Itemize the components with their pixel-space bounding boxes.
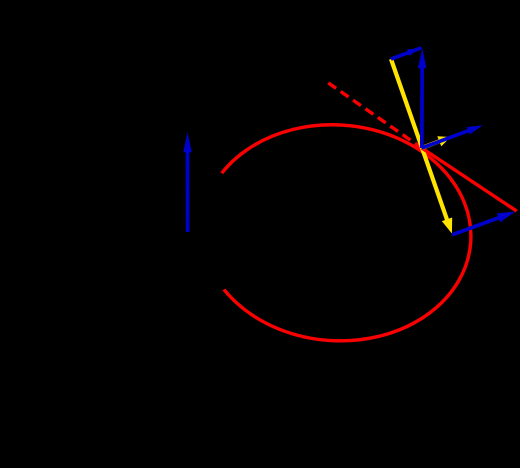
- blue bottom arrow: [452, 212, 515, 235]
- blue radial arrow at P: [422, 125, 483, 148]
- solid tangent line from P: [422, 148, 517, 211]
- yellow transverse velocity arrow: [391, 59, 452, 234]
- blue short top arrow: [391, 48, 421, 59]
- central body (black disk at focus, occludes orbit): [120, 164, 256, 300]
- yellow short radial arrow: [422, 136, 451, 148]
- orbit ellipse: [194, 116, 478, 350]
- dashed tangent line: [328, 83, 422, 148]
- blue arrow at focus: [183, 132, 192, 232]
- blue vertical arrow at P: [418, 48, 427, 148]
